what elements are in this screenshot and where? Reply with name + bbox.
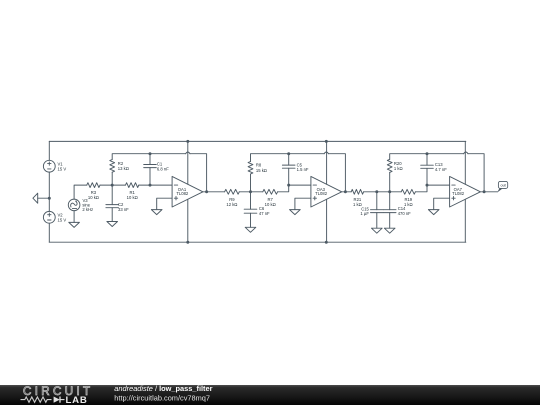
wire C2 to ground (111, 208, 113, 222)
ground at OA7 plus input (428, 210, 439, 215)
wire to OA7 minus input (427, 184, 450, 186)
wire C15 stem (376, 192, 378, 210)
wire to OA3 minus input (289, 184, 311, 186)
wire node A2 up to R8 (250, 174, 252, 192)
node C1 bottom junction (149, 184, 152, 187)
svg-text:47 nF: 47 nF (259, 211, 270, 216)
svg-text:1 kΩ: 1 kΩ (394, 166, 403, 171)
wire node A2 to R7 (251, 191, 263, 193)
wire OA3 plus input to ground (295, 198, 311, 209)
svg-text:2 kHz: 2 kHz (82, 207, 93, 212)
wire C15 to ground (376, 213, 378, 229)
resistor R20 (387, 159, 402, 172)
wire OA7 output to out flag (480, 191, 497, 193)
svg-text:33 nF: 33 nF (118, 207, 129, 212)
op-amp OA7 (450, 141, 481, 242)
svg-text:15 V: 15 V (58, 218, 67, 223)
wire V3 to ground (73, 211, 75, 223)
node C5 bottom junction (287, 184, 290, 187)
svg-text:470 nF: 470 nF (398, 211, 411, 216)
node out flag (497, 181, 508, 192)
wire C13 top stem (426, 154, 428, 166)
svg-text:LAB: LAB (66, 395, 88, 405)
svg-text:1 µF: 1 µF (360, 211, 369, 216)
wire to left ground (38, 197, 50, 199)
wire R1 to C1 node (139, 184, 150, 186)
svg-text:10 kΩ: 10 kΩ (127, 195, 138, 200)
wire feedback to OA7 output (468, 154, 484, 192)
ground below C6 (245, 227, 256, 232)
svg-text:15 V: 15 V (58, 167, 67, 172)
wire OA3 output to R21 (342, 191, 352, 193)
wire hop over OA1 power (186, 152, 190, 154)
node C13 top junction (426, 152, 429, 155)
op-amp OA1 (172, 141, 203, 242)
wire node A1 to R1 (112, 184, 125, 186)
wire feedback to OA1 output (190, 154, 207, 192)
ground below C14 (384, 228, 395, 233)
wire node A1 down to C2 (111, 185, 113, 205)
wire bottom rail (49, 241, 466, 243)
wire C6 to ground (250, 213, 252, 227)
ground at OA3 plus input (290, 210, 301, 215)
wire V3 to R3 (74, 185, 87, 199)
wire feedback to OA3 output (329, 154, 346, 192)
wire left rail lower (48, 223, 50, 242)
wire feedback row stage3 right (427, 153, 464, 155)
wire node A2 down to C6 (250, 192, 252, 209)
svg-text:1 kΩ: 1 kΩ (404, 202, 413, 207)
ground at OA1 plus input (151, 210, 162, 215)
ground below V3 (69, 222, 80, 227)
wire left rail upper (48, 141, 50, 160)
node B1 junction C15 (375, 190, 378, 193)
capacitor C1 (144, 162, 170, 172)
wire hop over OA7 power (464, 152, 468, 154)
op-amp OA3 (311, 141, 342, 242)
wire C14 to ground (389, 213, 391, 229)
svg-text:10 kΩ: 10 kΩ (88, 195, 99, 200)
node OA1 output junction (205, 190, 208, 193)
voltage source V3 sine (68, 198, 93, 212)
svg-text:TL082: TL082 (452, 191, 465, 196)
node C1 top junction (149, 152, 152, 155)
wire node A1 up (111, 172, 113, 185)
CircuitLab logo resistor squiggle (21, 397, 52, 402)
node OA3 Vminus on bottom rail (325, 241, 328, 244)
footer bar (0, 385, 540, 405)
node OA3 output junction (344, 190, 347, 193)
ground below C2 (107, 222, 118, 227)
resistor R7 (263, 189, 278, 206)
wire R3 to node A1 (100, 184, 112, 186)
wire C1 bottom stem (149, 168, 151, 186)
wire OA1 output to R9 (203, 191, 225, 193)
capacitor C15 (360, 206, 383, 216)
svg-text:TL082: TL082 (315, 191, 328, 196)
wire node B1 to node B2 (377, 191, 390, 193)
node mid supply junction (48, 197, 51, 200)
wire R19 jog up to C13 node (415, 185, 427, 192)
wire C5 top stem (288, 154, 290, 165)
capacitor C2 (106, 202, 129, 212)
svg-text:4.7 nF: 4.7 nF (435, 167, 447, 172)
wire R20 top to feedback row (390, 154, 427, 160)
resistor R3 (87, 183, 100, 200)
wire between V1 and mid node (48, 172, 50, 211)
node OA1 Vminus on bottom rail (186, 241, 189, 244)
node OA1 Vplus on top rail (186, 140, 189, 143)
capacitor C14 (383, 206, 411, 216)
svg-text:13 kΩ: 13 kΩ (118, 166, 129, 171)
wire node B2 to R19 (390, 191, 402, 193)
ground below C15 (372, 228, 383, 233)
svg-text:1.5 nF: 1.5 nF (297, 167, 309, 172)
voltage source V2 (43, 211, 66, 223)
svg-text:10 kΩ: 10 kΩ (265, 202, 276, 207)
wire R21 to node B1 (364, 191, 377, 193)
svg-text:12 kΩ: 12 kΩ (226, 202, 237, 207)
resistor R21 (351, 189, 363, 206)
resistor R9 (225, 189, 240, 206)
wire node B2 up to R20 (389, 172, 391, 191)
wire top rail (49, 140, 466, 142)
capacitor C6 (244, 206, 270, 216)
svg-text:6.8 nF: 6.8 nF (157, 167, 169, 172)
node B2 junction R20 C14 (388, 190, 391, 193)
svg-text:TL082: TL082 (176, 191, 189, 196)
CircuitLab logo diode (54, 397, 65, 403)
wire R8 top to feedback row (251, 154, 289, 162)
wire OA7 plus input to ground (434, 198, 450, 209)
capacitor C13 (421, 162, 448, 172)
wire to OA1 minus input (150, 184, 172, 186)
resistor R2 (110, 160, 129, 173)
wire R7 jog up to C5 node (278, 185, 289, 192)
wire feedback row stage2 right (289, 153, 324, 155)
wire C1 top stem (149, 154, 151, 165)
node C13 bottom junction (426, 184, 429, 187)
node OA7 output junction (483, 190, 486, 193)
svg-text:15 kΩ: 15 kΩ (256, 168, 267, 173)
svg-text:http://circuitlab.com/cv78mq7: http://circuitlab.com/cv78mq7 (114, 394, 210, 403)
wire R2 top to feedback row (112, 154, 150, 160)
voltage source V1 (43, 160, 66, 172)
capacitor C5 (282, 162, 309, 172)
wire hop over OA3 power (324, 152, 328, 154)
node A2 junction (249, 190, 252, 193)
wire R9 to node A2 (239, 191, 250, 193)
resistor R1 (126, 183, 139, 200)
wire C13 bottom stem (426, 168, 428, 185)
svg-text:andreadiste / low_pass_filter: andreadiste / low_pass_filter (114, 384, 212, 393)
wire C14 stem (389, 192, 391, 210)
wire C5 bottom stem (288, 168, 290, 185)
node A1 junction (111, 184, 114, 187)
ground left supply midpoint (33, 193, 38, 203)
resistor R8 (248, 162, 267, 175)
svg-text:out: out (500, 183, 506, 187)
wire OA1 plus input to ground (157, 198, 172, 209)
node OA3 Vplus on top rail (325, 140, 328, 143)
resistor R19 (401, 189, 415, 206)
wire feedback row stage1 right (150, 153, 186, 155)
node C5 top junction (287, 152, 290, 155)
